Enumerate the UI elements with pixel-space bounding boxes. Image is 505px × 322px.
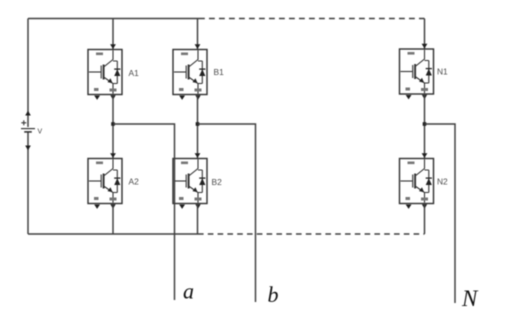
port arrow into B1 collector — [195, 44, 201, 49]
node: phase a tap junction — [111, 122, 115, 126]
svg-text:N2: N2 — [437, 177, 448, 187]
wire: leg N middle (N1 emitter to N2 collector) — [424, 94, 426, 159]
port arrow into N2 collector — [422, 153, 428, 158]
port arrow into A1 collector — [110, 44, 116, 49]
igbt A1 — [88, 50, 122, 100]
dc voltage source V — [21, 111, 35, 151]
wire: left bus lower segment (V- to bottom rail) — [27, 133, 29, 235]
wire: leg A upper drop (top bus to A1) — [112, 19, 114, 50]
igbt N2 — [400, 159, 434, 209]
igbt B2 — [173, 159, 207, 209]
wire: leg A lower drop (A2 to bottom bus) — [112, 204, 114, 235]
wire: leg A middle (A1 emitter to A2 collector) — [112, 95, 114, 159]
wire: bottom DC bus (solid part) — [28, 233, 198, 235]
wire: leg B middle (B1 emitter to B2 collector) — [197, 95, 199, 159]
wire: phase N output (tap to terminal) — [425, 124, 456, 303]
svg-text:B2: B2 — [212, 177, 223, 187]
svg-text:A1: A1 — [129, 68, 140, 78]
port arrow into N1 collector — [422, 44, 428, 49]
node: phase N tap junction — [423, 122, 427, 126]
igbt A2 — [88, 159, 122, 209]
wire: top DC bus (solid part) — [28, 18, 199, 20]
wire: top DC bus (dashed extension to Nth leg) — [199, 18, 425, 20]
wire: leg N upper drop (top bus to N1) — [424, 19, 426, 50]
svg-text:B1: B1 — [214, 67, 225, 77]
wire: leg B lower drop (B2 to bottom bus) — [197, 204, 199, 235]
svg-text:A2: A2 — [129, 177, 140, 187]
svg-text:V: V — [38, 129, 43, 136]
igbt N1 — [400, 49, 434, 99]
svg-text:b: b — [268, 282, 279, 307]
port arrow into B2 collector — [195, 153, 201, 158]
port arrow into A2 collector — [110, 153, 116, 158]
wire: bottom DC bus (dashed extension to Nth leg) — [198, 233, 425, 235]
wire: leg N lower drop (N2 to bottom bus) — [424, 204, 426, 235]
node: phase b tap junction — [196, 122, 200, 126]
svg-text:N: N — [461, 286, 479, 311]
wire: left bus upper segment (V+ to top rail) — [27, 19, 29, 128]
wire: phase b output (tap to terminal) — [198, 124, 256, 302]
svg-text:a: a — [183, 279, 194, 304]
svg-text:N1: N1 — [437, 67, 448, 77]
wire: leg B upper drop (top bus to B1) — [197, 19, 199, 50]
wire: phase a output (tap to terminal) — [113, 124, 175, 300]
igbt B1 — [173, 50, 207, 100]
